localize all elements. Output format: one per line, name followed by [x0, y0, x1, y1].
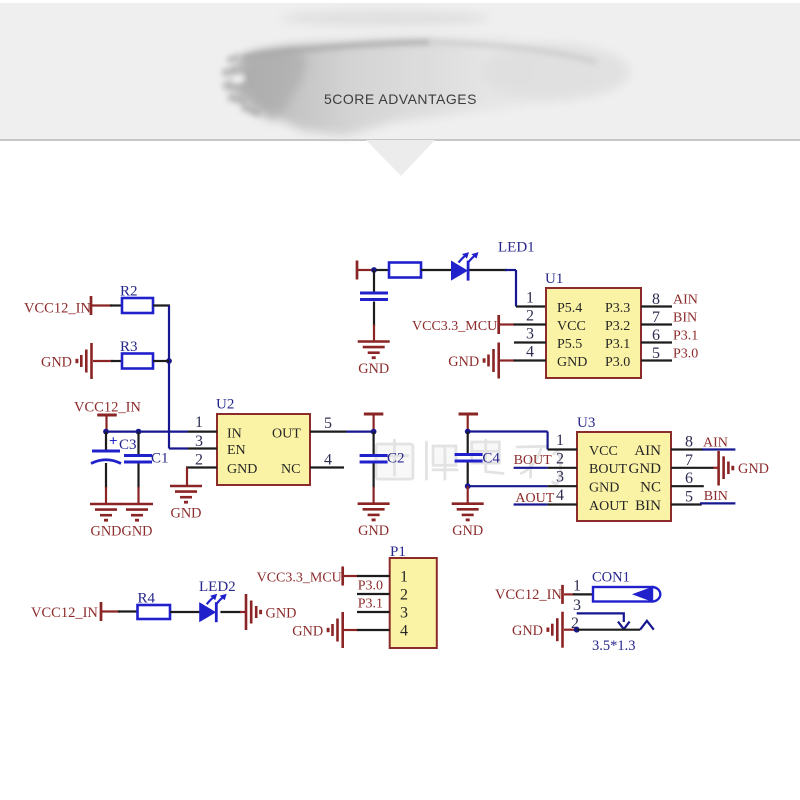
svg-text:5: 5 — [685, 489, 693, 506]
svg-text:5: 5 — [652, 345, 660, 362]
svg-text:7: 7 — [685, 452, 693, 469]
svg-text:GND: GND — [448, 354, 479, 370]
svg-text:NC: NC — [281, 462, 300, 477]
svg-text:6: 6 — [652, 327, 660, 344]
svg-text:3: 3 — [573, 597, 581, 614]
svg-text:GND: GND — [629, 461, 662, 477]
svg-text:U1: U1 — [545, 271, 563, 287]
svg-text:GND: GND — [358, 361, 389, 377]
svg-text:1: 1 — [400, 569, 408, 586]
svg-text:AIN: AIN — [703, 435, 728, 450]
svg-text:2: 2 — [556, 451, 564, 468]
svg-text:BOUT: BOUT — [589, 462, 628, 477]
svg-text:P3.1: P3.1 — [605, 337, 630, 352]
svg-text:LED1: LED1 — [498, 240, 535, 256]
svg-text:BIN: BIN — [673, 311, 697, 326]
svg-text:3: 3 — [400, 605, 408, 622]
svg-text:4: 4 — [526, 344, 534, 361]
svg-text:GND: GND — [41, 355, 72, 371]
svg-text:GND: GND — [227, 462, 257, 477]
svg-text:P3.0: P3.0 — [673, 347, 698, 362]
svg-text:P3.1: P3.1 — [358, 597, 383, 612]
svg-text:P3.3: P3.3 — [605, 301, 630, 316]
svg-text:AIN: AIN — [673, 293, 698, 308]
svg-text:2: 2 — [195, 452, 203, 469]
svg-text:4: 4 — [324, 452, 332, 469]
svg-text:C3: C3 — [119, 437, 137, 453]
svg-text:1: 1 — [526, 290, 534, 307]
svg-text:P5.5: P5.5 — [557, 337, 582, 352]
svg-text:GND: GND — [557, 355, 587, 370]
svg-text:VCC12_IN: VCC12_IN — [31, 605, 98, 621]
svg-text:8: 8 — [685, 434, 693, 451]
svg-text:GND: GND — [292, 624, 323, 640]
svg-text:P3.0: P3.0 — [605, 355, 630, 370]
svg-text:7: 7 — [652, 309, 660, 326]
svg-text:GND: GND — [122, 524, 153, 540]
svg-text:OUT: OUT — [272, 426, 301, 441]
svg-text:P3.2: P3.2 — [605, 319, 630, 334]
svg-text:BOUT: BOUT — [514, 453, 553, 468]
svg-text:1: 1 — [573, 578, 581, 595]
svg-text:IN: IN — [227, 426, 242, 441]
svg-text:C1: C1 — [151, 451, 169, 467]
svg-text:P3.1: P3.1 — [673, 329, 698, 344]
svg-text:EN: EN — [227, 443, 246, 458]
svg-text:VCC3.3_MCU: VCC3.3_MCU — [257, 571, 342, 586]
svg-text:GND: GND — [452, 523, 483, 539]
svg-text:P3.0: P3.0 — [358, 579, 383, 594]
svg-text:U3: U3 — [577, 415, 595, 431]
svg-text:U2: U2 — [216, 397, 234, 413]
svg-text:AOUT: AOUT — [589, 499, 628, 514]
svg-text:VCC12_IN: VCC12_IN — [495, 587, 562, 603]
svg-text:GND: GND — [512, 623, 543, 639]
svg-text:+: + — [109, 434, 118, 450]
svg-text:CON1: CON1 — [592, 570, 630, 586]
svg-text:GND: GND — [358, 523, 389, 539]
svg-text:3: 3 — [556, 469, 564, 486]
svg-text:4: 4 — [400, 623, 408, 640]
svg-text:VCC12_IN: VCC12_IN — [24, 301, 91, 317]
svg-text:VCC3.3_MCU: VCC3.3_MCU — [412, 319, 497, 334]
svg-text:GND: GND — [91, 524, 122, 540]
svg-text:8: 8 — [652, 291, 660, 308]
svg-text:LED2: LED2 — [199, 579, 236, 595]
svg-text:VCC12_IN: VCC12_IN — [74, 400, 141, 416]
svg-text:VCC: VCC — [589, 444, 618, 459]
svg-text:3: 3 — [195, 433, 203, 450]
svg-text:GND: GND — [738, 461, 769, 477]
svg-text:3.5*1.3: 3.5*1.3 — [592, 638, 636, 654]
svg-text:NC: NC — [640, 480, 661, 496]
svg-text:VCC: VCC — [557, 319, 586, 334]
svg-text:2: 2 — [400, 587, 408, 604]
svg-text:2: 2 — [526, 308, 534, 325]
svg-text:C2: C2 — [387, 451, 405, 467]
svg-text:AIN: AIN — [634, 443, 661, 459]
svg-text:P5.4: P5.4 — [557, 301, 582, 316]
svg-text:C4: C4 — [482, 451, 500, 467]
svg-text:BIN: BIN — [635, 498, 661, 514]
svg-text:5: 5 — [324, 415, 332, 432]
svg-text:4: 4 — [556, 487, 564, 504]
svg-text:GND: GND — [589, 481, 619, 496]
svg-text:6: 6 — [685, 470, 693, 487]
svg-text:1: 1 — [195, 414, 203, 431]
svg-text:3: 3 — [526, 326, 534, 343]
svg-text:BIN: BIN — [704, 489, 728, 504]
svg-text:1: 1 — [556, 432, 564, 449]
svg-text:GND: GND — [171, 506, 202, 522]
svg-text:GND: GND — [266, 606, 297, 622]
